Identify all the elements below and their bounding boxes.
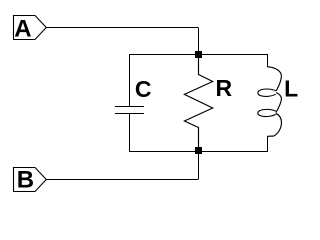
resistor R zigzag [184,58,212,147]
terminal A [14,15,47,42]
inductor L crossover loop 1 [258,89,276,96]
node bottom junction [195,147,202,154]
capacitor C plates [115,107,144,114]
capacitor C1 vertical wires [129,54,131,152]
inductor L turn 1 [268,67,282,91]
wire bottom rail [129,151,268,153]
svg-text:C: C [135,76,152,102]
svg-text:R: R [216,75,233,101]
inductor L turn 3 [268,113,282,136]
inductor L turn 2 [276,93,282,113]
inductor L top wire [267,54,269,67]
inductor L crossover loop 2 [258,109,276,116]
svg-text:B: B [17,167,34,194]
terminal B [14,167,47,194]
node top junction [195,51,202,58]
wire A to top node [46,28,199,52]
wire B to bottom node [46,152,199,180]
inductor L bottom wire [267,136,269,152]
wire top rail [129,54,268,56]
svg-text:A: A [14,15,31,42]
svg-text:L: L [284,76,298,102]
